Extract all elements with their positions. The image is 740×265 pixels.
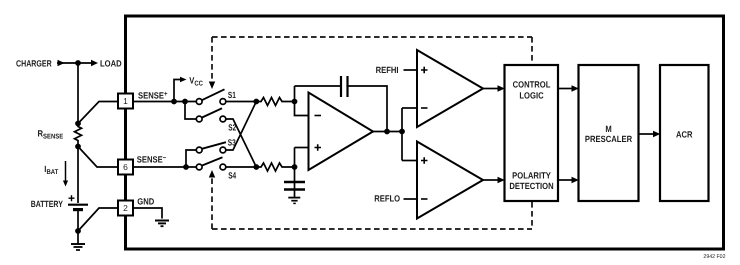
svg-text:SENSE−: SENSE− bbox=[137, 154, 166, 164]
svg-text:LOAD: LOAD bbox=[100, 58, 122, 68]
svg-text:CHARGER: CHARGER bbox=[16, 58, 52, 68]
svg-text:S4: S4 bbox=[228, 171, 236, 181]
svg-text:BATTERY: BATTERY bbox=[31, 199, 63, 209]
svg-text:PRESCALER: PRESCALER bbox=[585, 134, 633, 144]
svg-text:6: 6 bbox=[123, 162, 128, 172]
svg-text:POLARITY: POLARITY bbox=[512, 171, 551, 181]
svg-text:REFHI: REFHI bbox=[376, 65, 399, 75]
svg-text:S1: S1 bbox=[228, 90, 236, 100]
svg-text:LOGIC: LOGIC bbox=[519, 91, 544, 101]
svg-text:S3: S3 bbox=[228, 137, 236, 147]
svg-text:ACR: ACR bbox=[676, 130, 693, 140]
svg-text:2: 2 bbox=[123, 203, 128, 213]
svg-text:2942 F02: 2942 F02 bbox=[703, 254, 725, 260]
svg-text:DETECTION: DETECTION bbox=[509, 181, 553, 191]
svg-text:1: 1 bbox=[123, 96, 128, 106]
svg-text:GND: GND bbox=[137, 196, 154, 206]
svg-text:SENSE+: SENSE+ bbox=[138, 91, 167, 101]
svg-text:S2: S2 bbox=[228, 123, 236, 133]
svg-text:M: M bbox=[605, 124, 611, 134]
svg-text:REFLO: REFLO bbox=[374, 193, 400, 203]
svg-text:CONTROL: CONTROL bbox=[513, 80, 551, 90]
